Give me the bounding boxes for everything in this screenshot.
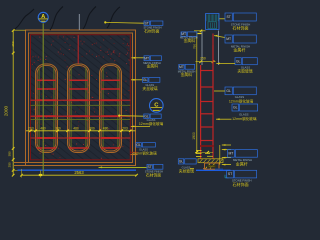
callout R3 glass [235, 58, 241, 65]
svg-text:GL: GL [233, 106, 238, 110]
cyan corner [224, 175, 226, 178]
svg-text:石材饰面: 石材饰面 [146, 173, 161, 178]
green rail y105 [31, 104, 131, 106]
svg-text:夹胶玻璃: 夹胶玻璃 [237, 68, 252, 73]
svg-text:1900: 1900 [192, 132, 196, 140]
svg-text:GL: GL [144, 114, 149, 118]
svg-text:GL: GL [136, 143, 141, 147]
svg-text:2563: 2563 [74, 170, 84, 175]
svg-text:250: 250 [8, 162, 12, 167]
dim row line [26, 130, 136, 132]
callout M4 glass [143, 78, 148, 83]
leader to R2 [214, 35, 218, 37]
svg-text:250: 250 [200, 56, 206, 60]
wall hatch [0, 35, 320, 160]
node yellow vertical [219, 145, 221, 165]
red rail y116 full [31, 115, 131, 117]
svg-text:ST: ST [228, 172, 232, 176]
svg-text:GL: GL [179, 160, 184, 164]
callout M1 stone [144, 21, 149, 25]
svg-text:GL: GL [143, 78, 148, 82]
svg-text:203: 203 [122, 127, 128, 131]
callout M7 glass [136, 143, 141, 147]
node arrows [222, 144, 226, 146]
callout M8 stone [147, 164, 152, 169]
leader strip 1 [131, 57, 135, 59]
svg-text:MT: MT [228, 152, 233, 156]
red mullion top [212, 34, 214, 47]
leader to R3 [216, 63, 220, 65]
svg-text:MT: MT [226, 37, 231, 41]
red rails thick [37, 99, 56, 101]
svg-text:夹丝玻璃: 夹丝玻璃 [179, 169, 194, 174]
bottom dim line [22, 174, 137, 176]
svg-text:300: 300 [55, 127, 61, 131]
leader dot mid [118, 115, 120, 117]
svg-text:金属杆: 金属杆 [233, 46, 245, 52]
svg-text:480: 480 [103, 127, 109, 131]
strip bottom hook [131, 151, 138, 153]
svg-text:10mm钢化玻璃: 10mm钢化玻璃 [132, 151, 157, 156]
svg-text:12mm钢化玻璃: 12mm钢化玻璃 [232, 116, 257, 121]
svg-text:12mm钢化玻璃: 12mm钢化玻璃 [229, 98, 254, 103]
bottom ext orange 2 [14, 165, 26, 167]
callout R2 metal [225, 35, 232, 43]
red rails in panels [37, 79, 56, 81]
door panel 2 [68, 64, 90, 153]
svg-text:ST: ST [145, 21, 149, 25]
svg-text:750: 750 [192, 44, 196, 49]
callout R5 glass [232, 104, 239, 111]
svg-text:50x50: 50x50 [209, 166, 216, 168]
svg-text:2000: 2000 [4, 105, 9, 116]
svg-text:MT: MT [144, 56, 149, 60]
small dims top right [194, 30, 206, 32]
floor line blue right [196, 169, 231, 171]
svg-text:夹丝玻璃: 夹丝玻璃 [142, 86, 157, 91]
callout R4 glass [225, 87, 232, 95]
glass lines panel 1 [38, 68, 40, 150]
leader strip 2 [131, 79, 135, 81]
svg-text:480: 480 [73, 127, 79, 131]
coping detail box [206, 14, 219, 30]
mullion ladder [200, 65, 202, 159]
callout R1 stone [225, 13, 232, 21]
frame outer orange [26, 30, 136, 166]
marker A circle [38, 12, 48, 22]
frame inner red [31, 35, 131, 160]
sill orange box [205, 163, 220, 169]
green rail y119 [31, 119, 131, 121]
svg-text:ST: ST [226, 15, 230, 19]
svg-text:金属杆: 金属杆 [236, 160, 248, 166]
section line A [42, 23, 44, 175]
svg-text:350: 350 [8, 151, 12, 156]
red rail y138 full [31, 137, 131, 139]
svg-text:ST: ST [148, 165, 152, 169]
red cut line [77, 35, 79, 63]
svg-text:金属料: 金属料 [184, 38, 196, 43]
leader dot top [104, 21, 106, 23]
leader to R4 [214, 90, 225, 92]
callout R6 metal [227, 150, 234, 158]
node inner marks [205, 153, 210, 155]
svg-text:金属料: 金属料 [147, 64, 159, 69]
svg-text:石材饰面: 石材饰面 [233, 25, 249, 31]
svg-text:203: 203 [28, 127, 34, 131]
gray tick [78, 14, 80, 30]
callout M9 glass [178, 159, 183, 164]
dim 1900 [196, 33, 198, 152]
glass lines panel 3 [102, 68, 104, 150]
sill hatch box [198, 159, 223, 163]
svg-text:石材饰面: 石材饰面 [144, 29, 159, 34]
svg-text:250: 250 [11, 41, 15, 46]
svg-text:GL: GL [226, 89, 231, 93]
leader green bottom [99, 167, 103, 169]
frame inner orange [29, 33, 133, 163]
door panel 1 [36, 64, 58, 153]
callout M3 metal [144, 56, 149, 61]
leader arrow mid2 [131, 126, 135, 128]
node floor marks [190, 168, 194, 170]
leader to R5 [216, 118, 220, 120]
svg-text:300: 300 [89, 127, 95, 131]
svg-text:石材饰面: 石材饰面 [233, 181, 249, 187]
red rail y100 full [31, 99, 131, 101]
glass lines panel 2 [70, 68, 72, 150]
svg-text:MT: MT [179, 65, 184, 69]
gray wall lines [201, 31, 203, 66]
svg-text:12mm钢化玻璃: 12mm钢化玻璃 [139, 121, 164, 126]
bottom ext orange 1 [14, 162, 29, 164]
floor line blue left [18, 169, 137, 171]
callout R7 stone [227, 170, 234, 178]
marker C circle [150, 99, 164, 113]
node small dims [196, 150, 202, 152]
left dim line [12, 31, 14, 176]
svg-text:金属料: 金属料 [181, 72, 193, 77]
callout M6 glass [144, 114, 149, 118]
svg-text:GL: GL [236, 59, 241, 63]
callout M5 metal [179, 64, 184, 69]
door panel 3 [100, 64, 122, 153]
callout M2 metal [181, 32, 186, 36]
svg-text:400: 400 [40, 127, 46, 131]
break squiggles [13, 9, 34, 30]
leader to R1 [219, 18, 225, 20]
